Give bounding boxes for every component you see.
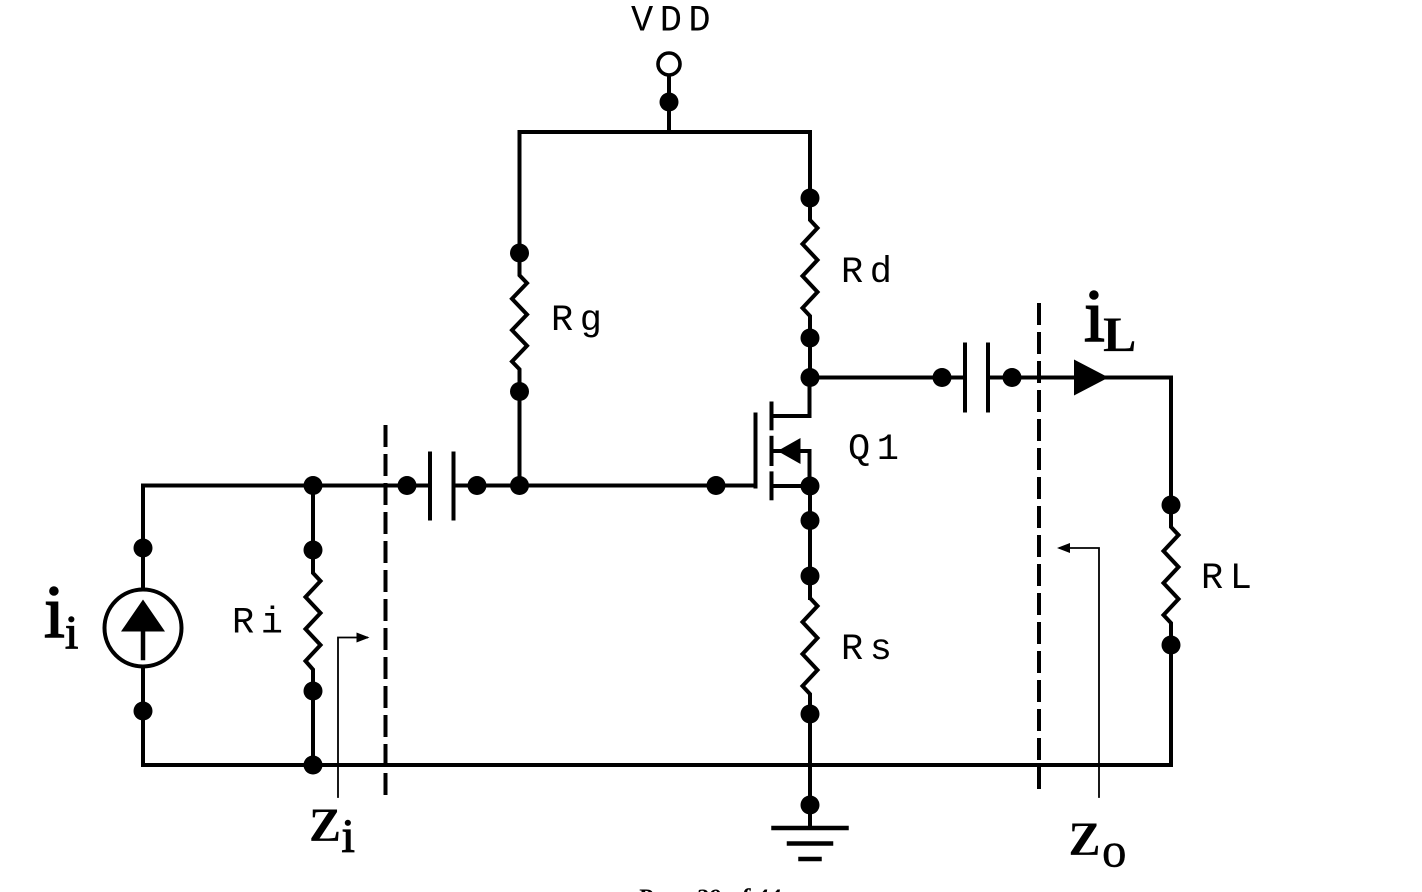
svg-text:Z: Z xyxy=(309,799,341,852)
resistor RL xyxy=(1162,378,1181,766)
dashed line Zo xyxy=(1037,305,1041,797)
wire Rd to drain node xyxy=(808,338,812,378)
label iL xyxy=(1084,275,1136,362)
ground xyxy=(774,828,847,859)
node above ground xyxy=(801,796,820,815)
wire drain to C2 xyxy=(810,376,965,380)
resistor Rg xyxy=(510,244,529,402)
node C1 right xyxy=(468,476,487,495)
svg-text:i: i xyxy=(1084,275,1105,358)
svg-text:Page 29 of 44: Page 29 of 44 xyxy=(636,883,781,892)
svg-text:i: i xyxy=(44,571,65,654)
wire source to Rs xyxy=(808,486,812,598)
wire C2 to RL xyxy=(988,376,1171,380)
svg-text:Rg: Rg xyxy=(551,300,608,342)
label Zi xyxy=(309,799,355,863)
svg-text:Z: Z xyxy=(1069,813,1101,866)
wire input top left xyxy=(143,484,430,488)
svg-text:Q1: Q1 xyxy=(848,429,905,471)
wire bottom rail xyxy=(143,763,1171,767)
label Zo xyxy=(1069,813,1127,878)
resistor Ri xyxy=(304,486,323,775)
svg-text:i: i xyxy=(342,810,355,863)
node above Rs xyxy=(801,567,820,586)
wire Rg to gate row xyxy=(518,392,522,486)
wire top rail VDD xyxy=(520,132,811,253)
svg-text:Rs: Rs xyxy=(841,629,898,671)
resistor Rd xyxy=(801,189,820,348)
node source xyxy=(801,477,820,496)
transistor Q1 xyxy=(756,378,811,499)
svg-text:L: L xyxy=(1103,306,1136,362)
capacitor C2 xyxy=(965,345,988,411)
label ii xyxy=(44,571,78,660)
capacitor C1 xyxy=(430,454,454,519)
node C2 left xyxy=(933,368,952,387)
resistor Rs xyxy=(801,576,820,724)
arrow iL xyxy=(1074,360,1109,396)
svg-text:Rd: Rd xyxy=(841,252,898,294)
current source Ii xyxy=(105,486,182,766)
VDD terminal xyxy=(658,53,680,75)
dashed line Zi xyxy=(384,427,388,797)
svg-text:o: o xyxy=(1102,823,1127,878)
pointer Zo arrow xyxy=(1057,543,1099,797)
pointer Zi arrow xyxy=(338,633,370,798)
node gate-Rg junction xyxy=(510,476,529,495)
node below VDD terminal xyxy=(660,93,679,112)
svg-text:i: i xyxy=(65,607,78,660)
node C2 right xyxy=(1003,368,1022,387)
svg-text:Ri: Ri xyxy=(232,603,289,645)
node gate xyxy=(707,476,726,495)
wire C1 to gate xyxy=(454,484,756,488)
node input left corner xyxy=(304,476,323,495)
wire VDD stub xyxy=(667,75,671,132)
svg-text:RL: RL xyxy=(1201,558,1258,600)
node below source xyxy=(801,511,820,530)
svg-text:VDD: VDD xyxy=(631,1,717,43)
wire Rs to ground xyxy=(808,714,812,828)
node C1 left xyxy=(398,476,417,495)
node drain xyxy=(801,368,820,387)
